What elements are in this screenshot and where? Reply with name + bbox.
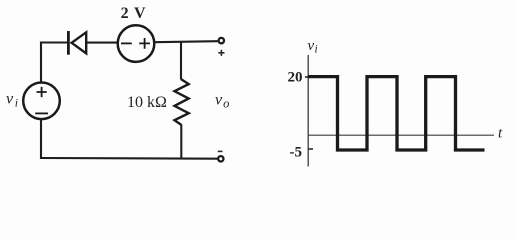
graph vertical axis vi [307,55,309,167]
wire vi bottom lead [40,119,42,158]
svg-text:-5: -5 [290,145,303,161]
bottom wire [41,158,218,159]
svg-text:20: 20 [288,70,303,86]
wire 2V source to plus terminal [155,41,218,42]
diode D1 triangle [72,32,87,53]
minus sign at output terminal [218,150,223,152]
wire diode to 2V source [86,42,117,44]
node junction at resistor top [180,42,182,80]
svg-text:vi: vi [308,38,318,56]
battery V1 plus sign [139,38,150,49]
svg-text:vi: vi [6,91,18,110]
square wave vi waveform [308,77,484,150]
svg-text:vo: vo [215,92,229,111]
minus output terminal [218,156,223,161]
plus output terminal [219,38,224,43]
svg-text:10 kΩ: 10 kΩ [127,94,167,111]
wire top-left corner to diode [41,41,68,44]
source vi minus sign [35,112,48,114]
graph horizontal axis t [308,134,494,136]
wire vi top lead [40,43,42,83]
svg-text:t: t [498,125,503,141]
svg-text:2 V: 2 V [121,5,147,22]
battery V1 minus sign [121,42,132,44]
resistor R1 zigzag [175,79,189,125]
voltage source vi circle [23,83,60,120]
battery source V1 2V circle [118,25,155,62]
tick -5 level [308,148,313,150]
diode D1 cathode bar [67,31,70,55]
resistor R1 bottom lead [180,125,182,159]
tick 20 level [305,76,308,78]
plus sign at output terminal [218,50,224,56]
source vi plus sign [37,87,47,97]
